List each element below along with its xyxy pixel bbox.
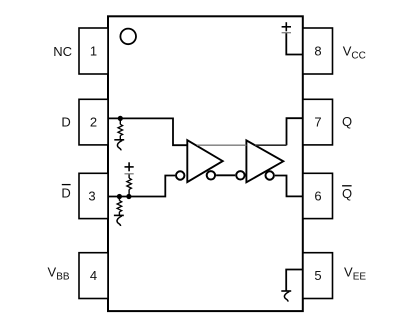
svg-text:7: 7 bbox=[314, 115, 321, 130]
pin 5 box bbox=[303, 253, 333, 299]
node junction 2 on D-bar wire bbox=[126, 194, 131, 199]
svg-text:BB: BB bbox=[56, 272, 70, 283]
svg-text:5: 5 bbox=[314, 268, 321, 283]
svg-text:V: V bbox=[48, 265, 57, 280]
resistor R2 pull-down at pin 3 bbox=[117, 197, 122, 215]
pin 1 box bbox=[79, 28, 108, 74]
pin 7 box bbox=[303, 99, 333, 145]
output bubble of U1b bbox=[266, 171, 274, 179]
output bubble of U1a bbox=[207, 171, 215, 179]
pin 6 box bbox=[303, 173, 333, 218]
svg-text:V: V bbox=[343, 44, 352, 59]
pin 3 box bbox=[79, 173, 108, 218]
capacitor C2 plate bbox=[282, 32, 291, 34]
wire buffer U1b output to Q node bbox=[255, 144, 287, 146]
svg-text:3: 3 bbox=[88, 188, 95, 203]
termination squiggle to VEE under R2 bbox=[114, 215, 124, 226]
wire C2 to pin 8 bbox=[286, 33, 303, 54]
input bubble of U1a bbox=[176, 171, 184, 179]
wire Q-bar output to pin 6 bbox=[275, 176, 303, 197]
svg-text:EE: EE bbox=[353, 272, 367, 283]
wire pin 5 to internal squiggle bbox=[286, 270, 303, 291]
wire between buffer bubbles bbox=[216, 174, 235, 176]
svg-text:D: D bbox=[61, 186, 70, 201]
capacitor C2 (VCC bypass) plus sign bbox=[282, 22, 291, 31]
capacitor C1 plate bbox=[125, 173, 134, 175]
buffer U1b triangle bbox=[246, 140, 283, 182]
label Q-bar pin 6 bbox=[342, 186, 352, 201]
svg-text:Q: Q bbox=[342, 186, 352, 201]
svg-text:NC: NC bbox=[53, 44, 72, 59]
input bubble of U1b bbox=[236, 171, 244, 179]
wire Q output to pin 7 bbox=[287, 118, 303, 145]
svg-text:D: D bbox=[61, 115, 70, 130]
label VCC pin 8 bbox=[343, 44, 366, 62]
svg-text:Q: Q bbox=[342, 114, 352, 129]
node junction 1 on D-bar wire bbox=[117, 194, 122, 199]
resistor R1 pull-down at pin 2 bbox=[118, 119, 123, 140]
capacitor C1 (VBB bypass) plus sign bbox=[125, 162, 134, 171]
wire D-bar input from pin 3 bbox=[108, 176, 175, 197]
wire internal top path between buffers (thin) bbox=[197, 144, 246, 146]
termination squiggle to VEE under R1 bbox=[114, 140, 124, 151]
pin 4 box bbox=[79, 253, 108, 299]
label VEE pin 5 bbox=[344, 265, 366, 283]
termination squiggle at VEE pin 5 bbox=[281, 291, 291, 302]
pin 1 indicator circle bbox=[120, 29, 136, 45]
IC package outline U1 bbox=[108, 16, 303, 311]
svg-text:6: 6 bbox=[314, 188, 321, 203]
svg-text:8: 8 bbox=[314, 44, 321, 59]
svg-text:4: 4 bbox=[90, 268, 97, 283]
resistor R3 from C1 to D-bar node bbox=[127, 174, 132, 196]
svg-text:1: 1 bbox=[90, 44, 97, 59]
svg-text:2: 2 bbox=[90, 115, 97, 130]
label D-bar pin 3 bbox=[61, 185, 70, 201]
svg-text:CC: CC bbox=[351, 51, 365, 62]
buffer U1a triangle bbox=[187, 140, 222, 182]
pin 8 box bbox=[303, 28, 333, 74]
svg-text:V: V bbox=[344, 265, 353, 280]
wire D input from pin 2 bbox=[108, 118, 188, 145]
pin 2 box bbox=[79, 99, 108, 145]
label VBB pin 4 bbox=[48, 265, 70, 283]
node junction on D wire bbox=[118, 116, 123, 121]
